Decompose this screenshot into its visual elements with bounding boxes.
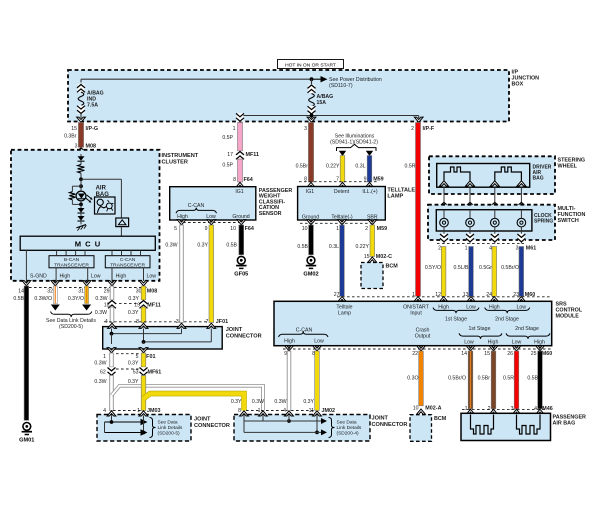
wire 0.5B S-GND to GM01 — [13, 286, 28, 420]
wires clock spring to M61 — [444, 231, 521, 244]
see data link details note (cluster) — [46, 312, 96, 330]
svg-text:8: 8 — [304, 177, 307, 183]
fuse A/BAG IND 7.5A — [77, 84, 104, 118]
svg-text:0.3Y: 0.3Y — [128, 296, 139, 302]
svg-text:14: 14 — [18, 288, 24, 294]
wire 0.5B SRS to passenger airbag — [527, 351, 542, 409]
svg-text:0.3Y: 0.3Y — [128, 310, 139, 316]
wire B-CAN High inside — [56, 268, 70, 281]
connector M60 bottom row — [283, 349, 552, 357]
svg-text:4: 4 — [283, 408, 286, 414]
connector JM02 row — [238, 408, 335, 414]
label INSTRUMENT CLUSTER — [162, 153, 199, 165]
svg-text:Lamp: Lamp — [338, 310, 351, 316]
svg-text:0.3Y: 0.3Y — [128, 379, 139, 385]
passenger airbag entry chevrons — [466, 409, 544, 414]
wire bus lower inside junction box — [240, 114, 419, 119]
see illuminations note — [330, 133, 378, 151]
svg-text:2: 2 — [438, 245, 441, 251]
wire 0.5P junction to MF11 — [222, 123, 242, 152]
fuse A/BAG 15A — [308, 79, 334, 114]
svg-text:F64: F64 — [244, 177, 253, 183]
svg-text:IG1: IG1 — [306, 189, 314, 195]
resistor cluster top — [78, 164, 85, 179]
wire bus top inside junction box — [81, 79, 312, 82]
connector M08 pin 3 — [75, 144, 96, 157]
arrow from illuminations (ILL+) — [366, 151, 373, 156]
wire 0.5B telltale ground — [297, 225, 313, 255]
svg-text:(SD200-5): (SD200-5) — [158, 430, 181, 436]
wire 0.3Y MF61 to JM03 — [128, 376, 146, 411]
driver airbag entry chevrons — [440, 181, 526, 186]
svg-text:See Data: See Data — [158, 419, 178, 425]
svg-text:0.3W: 0.3W — [95, 296, 107, 302]
label I/P JUNCTION BOX — [512, 70, 540, 88]
label JOINT CONNECTOR (JF01) — [226, 327, 262, 339]
svg-text:22: 22 — [412, 351, 418, 357]
svg-text:32: 32 — [47, 288, 53, 294]
clock spring coil 3 — [491, 210, 500, 231]
svg-text:IG1: IG1 — [235, 189, 243, 195]
svg-text:0.22Y: 0.22Y — [355, 244, 369, 250]
svg-text:BCM: BCM — [434, 416, 447, 422]
svg-text:0.3Y: 0.3Y — [231, 399, 242, 405]
svg-text:10: 10 — [302, 226, 308, 232]
svg-text:0.3W: 0.3W — [165, 242, 177, 248]
svg-text:3: 3 — [176, 319, 179, 325]
label SRS CONTROL MODULE — [556, 301, 583, 319]
labels telltale lamp pin (SRS) — [336, 304, 352, 316]
label HOT IN ON OR START — [278, 60, 344, 69]
label CLOCK SPRING — [534, 213, 553, 225]
svg-text:AIR: AIR — [96, 185, 107, 191]
wire warning box to MCU — [120, 227, 122, 237]
svg-text:MF11: MF11 — [246, 152, 259, 158]
clock spring connector chevrons — [440, 202, 525, 211]
svg-text:0.5B: 0.5B — [13, 296, 24, 302]
connector MF11 pin 17 — [227, 151, 259, 160]
svg-text:SWITCH: SWITCH — [558, 218, 579, 224]
wire 0.22Y SBR to BCM — [355, 225, 374, 257]
clock spring coil 4 — [517, 210, 526, 231]
svg-text:23: 23 — [513, 292, 519, 298]
svg-text:0.3W: 0.3W — [252, 399, 264, 405]
svg-text:M02-C: M02-C — [376, 254, 392, 260]
joint connector JF01 box — [103, 327, 223, 349]
JM03 internal line 2 — [105, 416, 148, 436]
svg-text:5: 5 — [136, 354, 139, 360]
svg-text:S-GND: S-GND — [30, 274, 47, 280]
JM03 see data link note — [150, 418, 183, 438]
svg-text:0.3Y/O: 0.3Y/O — [68, 296, 84, 302]
svg-text:TRANSCEIVER: TRANSCEIVER — [54, 263, 89, 269]
label JOINT CONNECTOR (JM02) — [372, 416, 408, 428]
svg-text:Output: Output — [415, 334, 431, 340]
connector JF01 bottom row — [103, 354, 155, 360]
wire 0.5B sensor ground — [226, 225, 243, 255]
svg-text:5: 5 — [174, 226, 177, 232]
airbag pictogram box — [95, 197, 116, 214]
svg-text:15: 15 — [71, 126, 77, 132]
svg-text:SENSOR: SENSOR — [259, 211, 282, 217]
diode D1 cluster — [78, 154, 85, 164]
svg-text:1: 1 — [137, 408, 140, 414]
JF01 entry chevrons top — [108, 323, 216, 328]
JM02 entry chevrons — [240, 411, 322, 416]
svg-text:62: 62 — [100, 370, 106, 376]
wires MCU to B-CAN transceiver — [57, 250, 85, 255]
svg-text:9: 9 — [205, 226, 208, 232]
svg-text:14: 14 — [461, 351, 467, 357]
svg-text:18: 18 — [104, 302, 110, 308]
svg-text:(SD110-7): (SD110-7) — [329, 83, 353, 89]
svg-text:13: 13 — [463, 292, 469, 298]
svg-text:JOINT: JOINT — [372, 416, 389, 422]
wire inside cluster from pin 3 — [80, 155, 82, 158]
svg-text:M59: M59 — [373, 177, 384, 183]
svg-text:B-CAN: B-CAN — [64, 257, 80, 263]
svg-text:High: High — [438, 304, 449, 310]
svg-text:BOX: BOX — [512, 82, 524, 88]
squib driver air bag 1 — [444, 167, 470, 181]
svg-text:M59: M59 — [377, 226, 388, 232]
svg-text:7: 7 — [336, 177, 339, 183]
joint connector JM02 box (dashed) — [234, 415, 370, 442]
svg-text:M08: M08 — [86, 144, 97, 150]
M61 exit chevrons — [440, 234, 525, 243]
svg-text:Telltale(-): Telltale(-) — [331, 214, 353, 220]
svg-text:M60: M60 — [542, 351, 553, 357]
driver air bag box — [437, 164, 530, 188]
svg-text:30: 30 — [136, 288, 142, 294]
labels passenger 2nd stage (SRS) — [506, 326, 550, 345]
svg-text:M46: M46 — [542, 406, 553, 412]
wire 0.5Br junction to telltale — [296, 123, 314, 183]
svg-text:Low: Low — [206, 214, 216, 220]
JM02 see data link note — [329, 418, 362, 438]
svg-text:0.3W: 0.3W — [274, 399, 286, 405]
connector M08 row — [18, 288, 157, 295]
svg-text:1: 1 — [258, 408, 261, 414]
svg-text:7: 7 — [206, 319, 209, 325]
squib passenger air bag 1 — [471, 415, 494, 435]
ground GF05 — [234, 256, 248, 277]
connector M59 top row — [299, 177, 384, 183]
svg-text:3: 3 — [304, 126, 307, 132]
diode D3 cluster — [78, 213, 85, 224]
svg-text:High: High — [177, 214, 188, 220]
svg-text:1st Stage: 1st Stage — [445, 316, 467, 322]
svg-text:AIR BAG: AIR BAG — [553, 420, 576, 426]
labels IG1 Detent ILL (telltale) — [306, 189, 378, 195]
svg-text:(SD200-5): (SD200-5) — [59, 324, 83, 330]
svg-text:LAMP: LAMP — [387, 194, 403, 200]
svg-text:0.22Y: 0.22Y — [326, 164, 340, 170]
svg-text:High: High — [116, 274, 127, 280]
clock spring coil 1 — [440, 210, 449, 231]
wire 0.5Br/O SRS to passenger airbag — [448, 351, 473, 409]
svg-text:JOINT: JOINT — [226, 327, 243, 333]
wire 0.3Y JF01 to MF61 — [128, 353, 146, 367]
svg-text:0.5B: 0.5B — [297, 244, 308, 250]
wire 0.5R SRS to passenger airbag — [503, 351, 519, 409]
telltale lamp box — [298, 187, 386, 221]
svg-text:0.5Y/O: 0.5Y/O — [425, 265, 441, 271]
svg-text:JM03: JM03 — [147, 408, 161, 414]
node dot LED bottom — [79, 203, 83, 207]
squib passenger air bag 2 — [517, 415, 541, 435]
svg-text:Input: Input — [410, 310, 422, 316]
squib driver air bag 2 — [495, 167, 522, 181]
ground GM02 — [303, 256, 318, 277]
wire 0.5R I/P-F to SRS — [405, 123, 421, 297]
svg-text:0.5B: 0.5B — [226, 242, 237, 248]
svg-text:INSTRUMENT: INSTRUMENT — [162, 153, 199, 159]
svg-text:9: 9 — [364, 177, 367, 183]
svg-text:0.5R: 0.5R — [503, 375, 514, 381]
svg-text:8: 8 — [136, 319, 139, 325]
svg-text:19: 19 — [134, 302, 140, 308]
svg-text:24: 24 — [486, 292, 492, 298]
svg-text:High: High — [534, 339, 545, 345]
svg-text:BCM: BCM — [386, 263, 399, 269]
svg-text:0.3Br: 0.3Br — [64, 134, 77, 140]
svg-text:MODULE: MODULE — [556, 313, 580, 319]
svg-text:8: 8 — [233, 177, 236, 183]
wire 0.5Y/O clock spring to SRS — [425, 247, 446, 297]
labels C-CAN (SRS) — [279, 328, 329, 345]
svg-text:GF05: GF05 — [234, 271, 248, 277]
SRS entry chevrons top — [338, 297, 526, 302]
svg-text:4: 4 — [105, 319, 108, 325]
labels High Low Ground (sensor) — [177, 214, 250, 220]
wire 0.3W MF11 to JF01 — [95, 307, 114, 323]
JF01 internal bus 1 — [110, 329, 182, 345]
svg-text:0.5Br/O: 0.5Br/O — [448, 375, 466, 381]
connector M02-C pin 15 — [364, 254, 392, 262]
svg-text:31: 31 — [78, 288, 84, 294]
svg-text:0.3O: 0.3O — [407, 375, 418, 381]
svg-text:SPRING: SPRING — [534, 219, 553, 225]
wires driver airbag to clock spring — [444, 187, 521, 210]
svg-text:53: 53 — [133, 370, 139, 376]
svg-text:0.5P: 0.5P — [222, 135, 233, 141]
svg-text:11: 11 — [309, 408, 314, 414]
wire 0.3Y sensor Low to JF01 — [197, 225, 213, 323]
svg-text:0.3W: 0.3W — [95, 310, 107, 316]
connector M61 row — [437, 244, 536, 252]
svg-text:Link Details: Link Details — [337, 425, 362, 431]
connector F64 bottom row — [174, 223, 254, 233]
svg-text:0.5Br/O: 0.5Br/O — [501, 265, 519, 271]
labels crash output (SRS) — [415, 328, 431, 340]
wire 0.3Br I/P-G — [64, 123, 84, 148]
svg-text:0.5Br: 0.5Br — [478, 375, 491, 381]
telltale exit chevrons — [307, 220, 377, 225]
svg-text:High: High — [489, 304, 500, 310]
svg-text:(SD200-4): (SD200-4) — [337, 430, 360, 436]
svg-text:Detent: Detent — [334, 189, 350, 195]
svg-text:26: 26 — [507, 351, 513, 357]
ground GM01 — [19, 423, 34, 444]
svg-text:BAG: BAG — [533, 176, 544, 182]
svg-text:Ground: Ground — [232, 214, 249, 220]
svg-text:3: 3 — [516, 245, 519, 251]
node junction dot at fuse A/BAG 15A — [310, 77, 314, 81]
label TELLTALE LAMP — [387, 188, 415, 200]
connector exit pin 3 — [304, 117, 316, 132]
wire 0.5Gr clock spring to SRS — [479, 247, 497, 297]
svg-text:2: 2 — [365, 226, 368, 232]
svg-text:3: 3 — [75, 144, 78, 150]
connector exit pin 15 I/P-G — [71, 117, 98, 132]
wire 0.3Y MF11 to JF01 — [128, 307, 146, 323]
diode D2 cluster — [78, 204, 85, 213]
svg-text:1: 1 — [233, 126, 236, 132]
svg-text:0.5L/B: 0.5L/B — [454, 265, 470, 271]
svg-text:I/P-G: I/P-G — [86, 126, 99, 132]
svg-text:2: 2 — [488, 406, 491, 412]
svg-text:WHEEL: WHEEL — [558, 164, 578, 170]
connector MF61 row — [100, 367, 161, 376]
node junction dot lower bus — [310, 114, 314, 118]
svg-text:4: 4 — [534, 406, 537, 412]
svg-text:1: 1 — [412, 292, 415, 298]
wire 0.22Y illum to telltale — [326, 156, 345, 183]
label STEERING WHEEL — [558, 158, 586, 170]
clock spring coil 2 — [466, 210, 475, 231]
svg-text:I/P-F: I/P-F — [423, 126, 435, 132]
label PASSENGER WEIGHT CLASSIFICATION SENSOR — [259, 188, 293, 217]
svg-text:See Data: See Data — [337, 419, 357, 425]
svg-text:1st Stage: 1st Stage — [469, 326, 491, 332]
svg-text:TELLTALE: TELLTALE — [387, 188, 415, 194]
svg-text:Low: Low — [464, 339, 474, 345]
arrow from illuminations (Detent) — [339, 151, 346, 156]
BCM box M02-A (dashed) — [410, 415, 447, 442]
cluster exit chevrons — [22, 281, 148, 286]
svg-text:High: High — [284, 338, 295, 344]
passenger weight classification sensor box — [170, 187, 256, 220]
sensor exit chevrons — [177, 220, 246, 225]
svg-text:0.3W: 0.3W — [94, 379, 106, 385]
labels passenger 1st stage (SRS) — [459, 326, 502, 345]
connector exit pin 2 I/P-F — [411, 117, 435, 132]
connector exit pin 1 — [233, 113, 244, 132]
arrow See Power Distribution — [312, 76, 382, 89]
svg-text:0.5Gr: 0.5Gr — [479, 265, 492, 271]
svg-text:C-CAN: C-CAN — [296, 328, 313, 334]
svg-text:M08: M08 — [147, 288, 158, 294]
svg-text:Low: Low — [512, 339, 522, 345]
svg-text:0.5Br: 0.5Br — [296, 164, 309, 170]
wire C-CAN Low inside — [144, 268, 157, 281]
connector JM03 row — [103, 408, 160, 414]
svg-text:8: 8 — [238, 408, 241, 414]
I/P junction box (dashed) — [68, 70, 509, 122]
wire 0.3W SRS C-CAN High to JM02 — [274, 351, 290, 411]
svg-text:25: 25 — [531, 351, 537, 357]
labels driver 1st stage High Low — [433, 304, 479, 322]
svg-text:CONNECTOR: CONNECTOR — [226, 333, 262, 339]
svg-text:15A: 15A — [317, 100, 327, 106]
B-CAN transceiver block — [49, 256, 94, 269]
svg-text:M C U: M C U — [75, 240, 102, 249]
svg-text:7.5A: 7.5A — [87, 103, 98, 109]
svg-text:Low: Low — [314, 338, 324, 344]
label PASSENGER AIR BAG — [553, 414, 587, 426]
node dot cluster branch — [79, 177, 83, 181]
svg-text:Link Details: Link Details — [158, 425, 183, 431]
svg-text:M61: M61 — [526, 245, 537, 251]
label 0.3Y (JM02 pin8) — [231, 399, 242, 405]
svg-text:GM01: GM01 — [19, 437, 34, 443]
label C-CAN (sensor) — [188, 203, 205, 209]
connector MF11 row (cluster) — [104, 300, 161, 309]
resistor parallel with LED — [69, 186, 81, 204]
svg-text:2: 2 — [411, 126, 414, 132]
wire 0.3W JF01 to MF61 — [94, 353, 113, 367]
svg-text:15: 15 — [364, 254, 370, 260]
chassis ground symbol cluster — [76, 225, 86, 231]
svg-text:1: 1 — [336, 226, 339, 232]
svg-text:2nd Stage: 2nd Stage — [515, 326, 539, 332]
wire 0.3O crash output to BCM — [407, 351, 423, 406]
svg-text:TRANSCEIVER: TRANSCEIVER — [110, 263, 145, 269]
labels ON/START input (SRS) — [403, 304, 430, 316]
svg-text:0.3Y: 0.3Y — [128, 360, 139, 366]
svg-text:0.3L: 0.3L — [355, 164, 365, 170]
wire 0.3L telltale to SRS — [329, 225, 344, 296]
svg-text:0.3W/O: 0.3W/O — [34, 296, 52, 302]
svg-text:GM02: GM02 — [303, 271, 318, 277]
svg-text:1: 1 — [103, 354, 106, 360]
JM02 internal line 2 — [244, 416, 327, 436]
BCM box M02-C (dashed) — [361, 263, 398, 289]
svg-text:ILL.(+): ILL.(+) — [362, 189, 377, 195]
connector M46 row — [462, 406, 553, 412]
svg-text:F64: F64 — [245, 226, 254, 232]
svg-text:3: 3 — [511, 406, 514, 412]
svg-text:4: 4 — [489, 245, 492, 251]
svg-text:0.3L: 0.3L — [329, 244, 339, 250]
JM03 entry chevrons — [107, 411, 148, 416]
joint connector JM03 box (dashed) — [97, 415, 191, 442]
SRS control module box — [274, 301, 552, 345]
svg-text:10: 10 — [413, 406, 419, 412]
svg-text:CLUSTER: CLUSTER — [162, 160, 188, 166]
arrow to data link (left) — [51, 305, 60, 311]
svg-text:1: 1 — [465, 245, 468, 251]
connector M60 top row — [334, 292, 552, 298]
svg-text:MF11: MF11 — [147, 302, 160, 308]
MCU block — [20, 236, 155, 250]
steering wheel box (dashed) — [429, 156, 555, 194]
svg-text:0.5R: 0.5R — [405, 164, 416, 170]
wire 0.5Br/O clock spring to SRS — [501, 247, 523, 297]
svg-text:0.3Y: 0.3Y — [303, 399, 314, 405]
wire 0.3W sensor High to JF01 — [165, 225, 183, 323]
svg-text:M02-A: M02-A — [425, 406, 441, 412]
connector F64 pin 8 entry — [233, 177, 253, 187]
labels driver 2nd stage High Low — [485, 304, 530, 322]
label JOINT CONNECTOR (JM03) — [194, 417, 230, 429]
svg-text:4: 4 — [103, 408, 106, 414]
svg-text:15: 15 — [484, 351, 490, 357]
wire 0.3Y SRS C-CAN Low to JM02 — [303, 351, 319, 411]
wire branch to warning lamp driver — [81, 179, 121, 218]
svg-text:CONNECTOR: CONNECTOR — [372, 422, 408, 428]
